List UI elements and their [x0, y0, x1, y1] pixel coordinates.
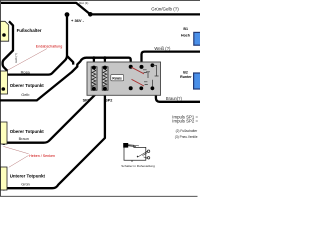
coil SP2 — [102, 67, 108, 90]
microswitch plunger — [123, 143, 128, 148]
node coil SP1 top terminal — [92, 66, 96, 70]
svg-text:Oberer Totpunkt: Oberer Totpunkt — [10, 129, 45, 134]
svg-text:B2: B2 — [183, 70, 188, 74]
svg-text:Endabschaltung: Endabschaltung — [36, 44, 62, 48]
svg-text:(3) Pneu.Ventile: (3) Pneu.Ventile — [175, 135, 198, 139]
svg-text:Hoch: Hoch — [181, 34, 190, 38]
svg-text:1N4007: 1N4007 — [95, 80, 97, 88]
actuator B1 box — [194, 32, 201, 45]
wire: stem to coil1 top — [93, 58, 95, 67]
microswitch contact arm — [137, 152, 147, 158]
svg-text:Schalter in Ruhestellung: Schalter in Ruhestellung — [121, 164, 155, 168]
node junction bus-coil1 — [92, 56, 95, 59]
svg-text:Weiß (?): Weiß (?) — [154, 46, 171, 51]
svg-text:Fußschalter: Fußschalter — [17, 28, 42, 33]
svg-text:SP1: SP1 — [83, 98, 90, 102]
node Gruen wire left terminal — [2, 186, 7, 191]
svg-text:1N4007: 1N4007 — [106, 80, 108, 88]
actuator B2 box — [194, 73, 201, 89]
svg-text:Braun: Braun — [19, 136, 29, 141]
node microswitch pivot — [137, 156, 138, 157]
sensor box Oberer Totpunkt 2 — [1, 122, 8, 144]
svg-text:Heben / Senken: Heben / Senken — [29, 154, 55, 158]
relay contact arm pole2 — [132, 79, 145, 86]
node coil SP2 top terminal — [103, 66, 107, 70]
leader line Endabschaltung — [8, 49, 47, 70]
svg-text:Grün: Grün — [21, 182, 30, 187]
node contact pole1 Weiss terminal — [140, 65, 144, 69]
wire: Braun2 from relay contact bottom to right edge — [156, 89, 200, 102]
wire microswitch terminal stubs — [132, 151, 147, 162]
svg-text:Braun(?): Braun(?) — [166, 96, 183, 101]
node contact pole2 NO terminal — [151, 86, 155, 90]
sensor box Unterer Totpunkt — [1, 167, 8, 190]
wire: Braun from coil1 bottom to Oberer Totpunkt 2 — [4, 87, 97, 143]
microswitch terminals — [147, 150, 149, 152]
svg-text:B1: B1 — [183, 27, 188, 31]
node Fussschalter contact dot — [2, 33, 6, 37]
leader lines Heben/Senken — [3, 146, 28, 167]
wire: jog joining relay feed — [67, 56, 73, 65]
wire: Weiss from relay contact to right edge — [142, 52, 201, 67]
border frame — [0, 0, 200, 196]
svg-text:Gelb (?): Gelb (?) — [14, 53, 18, 63]
node coil SP2 bottom terminal — [103, 87, 107, 91]
node battery minus terminal — [88, 12, 93, 17]
wire: Gelb wire from lower box up to relay bus W2 and contact common — [0, 58, 131, 101]
node junction bus-coil2 — [103, 56, 106, 59]
svg-text:Oberer Totpunkt: Oberer Totpunkt — [10, 83, 45, 88]
node Braun wire left terminal — [2, 140, 7, 145]
svg-text:Runter: Runter — [180, 75, 192, 79]
node contact pole2 terminal — [139, 86, 143, 90]
node contact pole1 NO terminal — [151, 63, 155, 67]
relay module box — [87, 62, 161, 95]
svg-text:Gelb: Gelb — [21, 92, 29, 97]
svg-text:Rosa: Rosa — [21, 70, 31, 75]
node coil SP1 bottom terminal — [92, 87, 96, 91]
sensor box Oberer Totpunkt 1 — [1, 71, 8, 94]
coil SP1 — [91, 67, 97, 90]
wire: +36V vertical with Rosa branch to Oberer Totpunkt box — [8, 15, 68, 75]
contact aux wiring — [143, 65, 159, 86]
node contact pole1 common — [129, 65, 133, 69]
svg-text:Unterer Totpunkt: Unterer Totpunkt — [10, 174, 46, 179]
svg-text:Impuls SP2 =: Impuls SP2 = — [172, 119, 198, 124]
svg-text:Rot (1): Rot (1) — [79, 1, 88, 5]
wire: Fussschalter down to box2 — [3, 21, 13, 71]
wire: Gruen from coil2 bottom to Unterer Totpunkt — [4, 87, 105, 188]
microswitch lever — [128, 145, 139, 147]
label Relais — [111, 75, 124, 81]
node battery plus terminal — [65, 12, 70, 17]
svg-text:Grün/Gelb (?): Grün/Gelb (?) — [151, 7, 179, 12]
wire: stem to coil2 top — [104, 58, 106, 67]
svg-text:Relais: Relais — [112, 76, 122, 80]
svg-text:(2) Fußschalter: (2) Fußschalter — [176, 129, 199, 133]
svg-text:+ 36V -: + 36V - — [71, 18, 85, 23]
node Oberer Totpunkt 1 contact dot — [2, 87, 6, 91]
svg-text:SP2: SP2 — [105, 98, 112, 102]
relay contact arm pole1 — [132, 67, 145, 74]
node contact pole2 common — [129, 86, 133, 90]
wire: +36V supply top line (Rot / Gruen-Gelb) — [1, 3, 200, 15]
sensor box Fussschalter — [1, 21, 9, 41]
microswitch detail body — [124, 145, 146, 160]
